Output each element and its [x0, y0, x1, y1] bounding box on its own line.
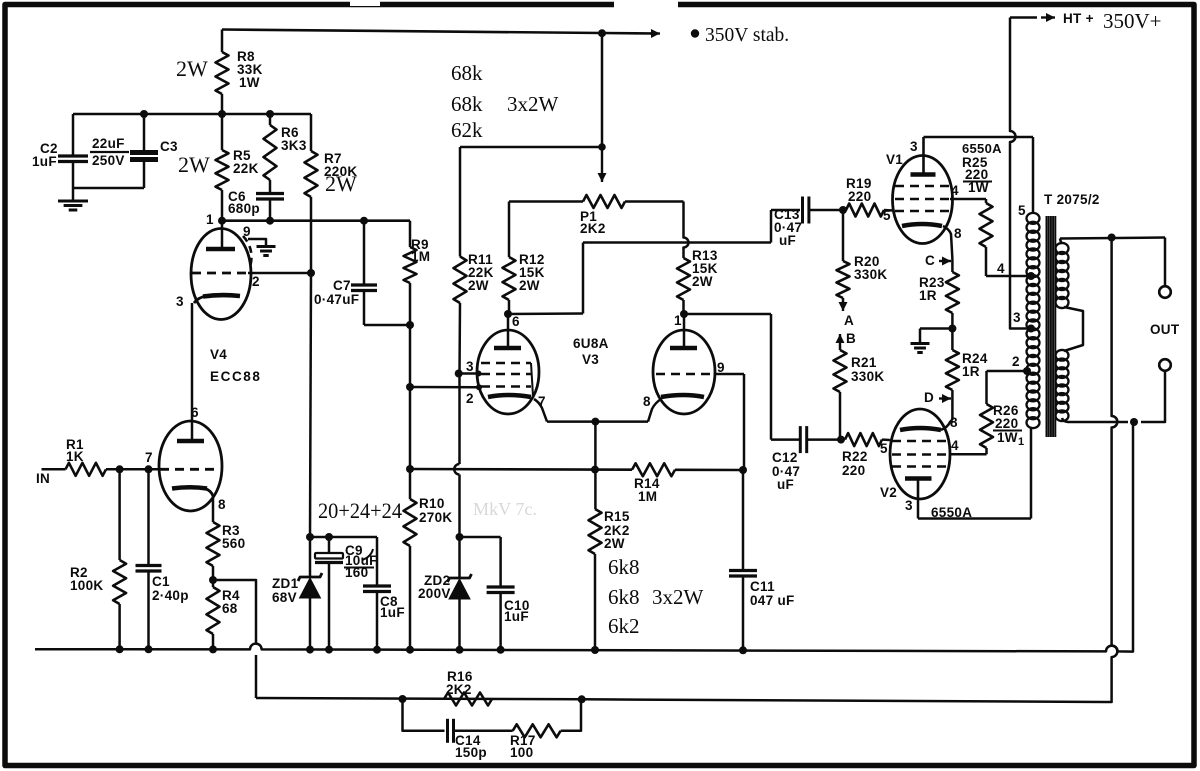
V1 pin8 lead: [943, 226, 952, 259]
svg-text:330K: 330K: [854, 267, 887, 282]
svg-text:20+24+24: 20+24+24: [318, 498, 402, 523]
node C1 top: [145, 465, 153, 473]
V4 lower cathode: [172, 487, 213, 496]
tube V2 envelope: [890, 409, 950, 499]
node C7/R9 bottom: [406, 321, 414, 329]
wire feedback vertical: [1105, 238, 1117, 703]
wire R8 bottom lead: [221, 94, 224, 114]
svg-text:200V: 200V: [418, 586, 451, 601]
wire decoupled B+ bus y114: [73, 113, 311, 116]
label R1: [66, 437, 84, 464]
capacitor C13: [803, 197, 809, 224]
svg-text:1uF: 1uF: [32, 154, 57, 169]
wire R1 to V4 pin7: [106, 468, 160, 471]
pin label 8 (V1): [954, 226, 962, 241]
svg-text:3: 3: [1013, 310, 1021, 325]
svg-text:5: 5: [883, 208, 891, 223]
wire pin3 stub: [459, 372, 479, 375]
terminal dot 350V stab: [691, 29, 699, 37]
wire pin9 to ground: [248, 239, 266, 245]
V3 pin7 lead: [534, 399, 547, 422]
wire R3 to R4: [212, 566, 215, 587]
svg-text:3x2W: 3x2W: [652, 585, 704, 609]
node R6 top: [266, 110, 274, 118]
V1 grid dashes: [895, 186, 950, 211]
svg-text:6k8: 6k8: [608, 585, 640, 609]
terminal IN lead: [42, 468, 66, 471]
svg-text:2W: 2W: [325, 171, 357, 196]
V2 cathode: [900, 428, 941, 430]
node pin2 at envelope: [476, 384, 482, 390]
svg-text:V1: V1: [886, 152, 903, 167]
wire arrow 350V stab: [650, 29, 660, 38]
resistor R4: [207, 587, 220, 649]
tap label 4: [997, 261, 1005, 276]
svg-text:2K2: 2K2: [580, 221, 606, 236]
resistor R22: [845, 433, 890, 446]
node bus C10: [497, 646, 505, 654]
annotation 68k 3x2W: [451, 92, 559, 116]
wire pin9 V3: [715, 374, 744, 470]
label R15: [604, 509, 630, 551]
svg-text:6: 6: [191, 405, 199, 420]
V3 pentode anode plate: [494, 346, 521, 351]
annotation 6k8: [608, 555, 640, 579]
svg-text:2: 2: [466, 391, 474, 406]
resistor R1: [66, 463, 107, 476]
node C7 top: [360, 217, 368, 225]
zener ZD1: [298, 537, 322, 650]
node R15 rail: [591, 466, 599, 474]
pin label 3 (V1): [910, 139, 918, 154]
transformer secondary lower: [1056, 350, 1069, 421]
label HT+: [1063, 11, 1094, 26]
svg-text:3: 3: [910, 139, 918, 154]
label 6U8A V3: [573, 336, 609, 367]
resistor R8: [216, 52, 229, 94]
label R17: [510, 733, 536, 760]
capacitor C6: [256, 194, 284, 221]
label R7: [324, 151, 357, 179]
tube V1 envelope: [893, 156, 953, 244]
node bus ZD2: [456, 646, 464, 654]
svg-text:1: 1: [206, 212, 214, 227]
svg-text:C12: C12: [772, 450, 798, 465]
label B: [846, 331, 856, 346]
wire V3 cathode drop: [594, 422, 597, 509]
svg-text:3: 3: [176, 294, 184, 309]
resistor R20: [837, 210, 850, 302]
V4 pin9 shield dashed arc: [243, 236, 251, 267]
svg-text:22K: 22K: [233, 161, 259, 176]
node V3 pin6: [504, 310, 512, 318]
label R26: [993, 403, 1024, 448]
label C7: [314, 278, 359, 307]
label IN: [36, 471, 50, 486]
svg-text:6U8A: 6U8A: [573, 336, 609, 351]
wire C7 bottom to R9: [364, 324, 410, 327]
svg-text:68V: 68V: [272, 590, 297, 605]
svg-text:6k8: 6k8: [608, 555, 640, 579]
svg-text:4: 4: [997, 261, 1005, 276]
tube V3 triode envelope: [653, 330, 715, 414]
node tap 3: [1027, 325, 1035, 333]
resistor R24: [946, 329, 959, 421]
pin label 8 (V4): [218, 497, 226, 512]
potentiometer P1: [509, 195, 684, 208]
svg-text:150p: 150p: [455, 745, 487, 760]
node bus C9: [325, 646, 333, 654]
wire fb lower branch: [403, 699, 445, 731]
svg-text:0·47uF: 0·47uF: [314, 292, 359, 307]
V4 upper grid dashed: [192, 272, 248, 275]
svg-text:330K: 330K: [851, 369, 884, 384]
V2 pin8 lead: [941, 420, 952, 430]
label R10: [419, 496, 452, 525]
pin label 2 (V4): [252, 274, 260, 289]
svg-text:9: 9: [243, 224, 251, 239]
annotation 2W (R5): [178, 152, 210, 177]
wire R25 to tap4: [986, 275, 1030, 278]
svg-text:68k: 68k: [451, 92, 483, 116]
wire lower OUT to secondary bottom: [1062, 371, 1165, 422]
capacitor C7: [351, 221, 377, 325]
tube V4 lower triode envelope: [159, 421, 222, 511]
wire R11/pin3 column: [454, 374, 459, 538]
annotation 20+24+24: [318, 498, 402, 523]
wire HT to P1 wiper: [460, 33, 602, 257]
svg-text:680p: 680p: [228, 201, 260, 216]
svg-text:9: 9: [717, 360, 725, 375]
svg-text:8: 8: [954, 226, 962, 241]
V3 suppressor tie: [531, 363, 533, 396]
svg-text:T 2075/2: T 2075/2: [1044, 192, 1100, 207]
arrow node B: [836, 334, 845, 345]
svg-text:1W: 1W: [968, 180, 989, 195]
resistor R15: [589, 509, 602, 650]
V3 pentode grid dashes: [481, 363, 531, 387]
label T 2075/2: [1044, 192, 1100, 207]
wire V4 pin2 to R7: [248, 272, 311, 275]
wire P1 right with hop: [684, 202, 689, 259]
svg-text:560: 560: [222, 536, 245, 551]
svg-text:68k: 68k: [451, 61, 483, 85]
wire cathode rail: [410, 469, 743, 470]
wire 350V stab top bus: [222, 30, 657, 34]
node junction top bus to P1 wiper: [598, 29, 606, 37]
pin label 2 (V3): [466, 391, 474, 406]
capacitor C14: [448, 719, 454, 743]
svg-text:ZD1: ZD1: [272, 576, 299, 591]
annotation 350V+: [1103, 9, 1162, 33]
pin label 6 (V4): [191, 405, 199, 420]
svg-text:62k: 62k: [451, 118, 483, 142]
annotation 2W (R8): [176, 56, 208, 81]
svg-text:R22: R22: [842, 449, 868, 464]
svg-text:250V: 250V: [92, 153, 125, 168]
node pin3: [455, 370, 463, 378]
label R8: [237, 49, 263, 90]
node ground tap: [1130, 418, 1138, 426]
svg-text:1: 1: [1018, 436, 1024, 448]
capacitor C11: [729, 470, 757, 650]
svg-text:2W: 2W: [692, 274, 713, 289]
svg-text:1uF: 1uF: [504, 609, 529, 624]
zener ZD2: [448, 537, 472, 650]
wire HT vertical: [1010, 18, 1030, 329]
svg-text:R15: R15: [604, 509, 630, 524]
svg-text:OUT: OUT: [1150, 322, 1180, 337]
pin label 6 (V3): [512, 314, 520, 329]
tube V3 pentode envelope: [477, 330, 539, 414]
svg-text:220: 220: [995, 416, 1018, 431]
V3 triode grid dashes: [656, 373, 712, 376]
V3 pentode cathode: [488, 395, 531, 397]
label R3: [222, 523, 245, 551]
annotation 62k: [451, 118, 483, 142]
svg-text:R10: R10: [419, 496, 445, 511]
wire to ground stub: [920, 329, 952, 343]
node rail R10: [406, 465, 414, 473]
ground C2: [58, 188, 88, 210]
svg-text:IN: IN: [36, 471, 50, 486]
svg-text:2W: 2W: [178, 152, 210, 177]
node R21/R22: [837, 436, 845, 444]
V2 grid dashes: [892, 441, 948, 467]
wire C2 C3 bottom: [73, 187, 144, 190]
resistor R12: [503, 202, 516, 315]
svg-text:6: 6: [512, 314, 520, 329]
label R16: [446, 669, 473, 697]
svg-text:68: 68: [222, 601, 238, 616]
svg-text:8: 8: [643, 394, 651, 409]
annotation 6k2: [608, 614, 640, 638]
svg-text:100: 100: [510, 745, 533, 760]
pin label 3 (V3): [466, 359, 474, 374]
svg-text:100K: 100K: [70, 578, 103, 593]
node C6 bottom: [266, 217, 274, 225]
svg-text:3K3: 3K3: [281, 138, 307, 153]
node pin3 at envelope: [476, 371, 482, 377]
label V1: [886, 152, 903, 167]
wire V1 anode to transformer tap5: [924, 137, 1034, 214]
resistor R14: [632, 463, 675, 476]
label OUT: [1150, 322, 1180, 337]
node ZD2 top: [456, 533, 464, 541]
node V4 pin1: [218, 217, 226, 225]
resistor R6: [264, 114, 277, 193]
wire R10 column: [409, 387, 412, 469]
capacitor C2: [58, 114, 88, 188]
svg-text:D: D: [924, 390, 934, 405]
wire V4 cathode to lower anode: [191, 303, 194, 439]
resistor R5: [216, 114, 229, 221]
svg-text:C1: C1: [152, 574, 170, 589]
svg-text:6k2: 6k2: [608, 614, 640, 638]
label R5: [233, 148, 259, 176]
label 6550A (V1): [962, 141, 1002, 156]
svg-text:HT +: HT +: [1063, 11, 1094, 26]
V4 lower grid dashed: [160, 468, 218, 471]
svg-text:1uF: 1uF: [380, 605, 405, 620]
label C9: [344, 543, 378, 580]
node bus C1: [145, 645, 153, 653]
tube V4 upper triode envelope: [191, 229, 251, 320]
pin label 3 (V4): [176, 294, 184, 309]
node feedback R3/R4: [209, 576, 217, 584]
label C14: [455, 733, 487, 760]
ground V4 pin9: [257, 247, 276, 256]
label R21: [851, 355, 884, 384]
svg-text:2W: 2W: [519, 278, 540, 293]
V4 upper cathode: [194, 295, 240, 303]
label R2: [70, 565, 103, 593]
svg-text:350V stab.: 350V stab.: [705, 25, 789, 46]
svg-text:2W: 2W: [468, 278, 489, 293]
label R6: [281, 125, 307, 153]
node R23/R24: [948, 325, 956, 333]
capacitor C1: [136, 469, 162, 649]
wire V1 pin4 to R25: [950, 198, 986, 201]
arrow node A: [839, 301, 848, 311]
node tap 4: [1027, 272, 1035, 280]
transformer secondary upper: [1056, 239, 1069, 309]
svg-text:1W: 1W: [997, 430, 1018, 445]
annotation 68k: [451, 61, 483, 85]
label R4: [222, 588, 240, 616]
resistor R17: [513, 724, 561, 737]
wire R26 to tap2: [987, 370, 1027, 373]
pin label 5 (V1): [883, 208, 891, 223]
label R19: [846, 176, 872, 204]
resistor R26: [980, 371, 993, 454]
tap label 5: [1018, 203, 1026, 218]
wire pin6 to C13: [508, 210, 800, 314]
node bus R4: [209, 645, 217, 653]
label R20: [854, 254, 887, 282]
node pin2/R7: [307, 269, 315, 277]
node R11 feed junction: [598, 143, 606, 151]
node bus R10: [406, 646, 414, 654]
svg-text:3: 3: [905, 498, 913, 513]
wire R7 grid bias drop: [310, 273, 311, 537]
svg-text:3x2W: 3x2W: [507, 92, 559, 116]
label R11: [468, 252, 494, 293]
svg-text:C: C: [925, 253, 935, 268]
svg-text:160: 160: [345, 565, 368, 580]
svg-text:1R: 1R: [919, 288, 937, 303]
tap label 3: [1013, 310, 1021, 325]
svg-text:220: 220: [848, 189, 871, 204]
label R9: [411, 237, 430, 264]
wire C12 to R22: [807, 438, 841, 441]
label C13: [774, 207, 802, 248]
wire main ground bus: [35, 422, 1133, 652]
svg-text:1M: 1M: [411, 249, 430, 264]
svg-text:C11: C11: [750, 579, 775, 594]
node V3 cathodes: [591, 418, 599, 426]
svg-text:V2: V2: [880, 485, 897, 500]
resistor R11: [454, 257, 467, 374]
resistor R21: [834, 345, 847, 440]
pin label 3 (V2): [905, 498, 913, 513]
wire ZD2 to C10: [460, 536, 501, 539]
wiper arrow into P1: [598, 146, 607, 182]
svg-text:V3: V3: [582, 352, 599, 367]
capacitor C3 electrolytic: [130, 114, 158, 188]
wire pin1 to C12: [684, 314, 799, 440]
pin label 5 (V2): [880, 441, 888, 456]
wire R8 top lead: [221, 30, 224, 53]
resistor R7: [305, 114, 318, 273]
svg-text:B: B: [846, 331, 856, 346]
label R25: [962, 155, 992, 195]
svg-text:2K2: 2K2: [446, 682, 472, 697]
wire to upper OUT: [1164, 238, 1167, 287]
svg-text:2W: 2W: [176, 56, 208, 81]
wire R17 up to fb line: [561, 699, 581, 731]
resistor R25: [980, 199, 993, 276]
svg-text:5: 5: [880, 441, 888, 456]
svg-text:2: 2: [1012, 354, 1020, 369]
node bus C11: [739, 646, 747, 654]
pin label 8 (V2): [950, 415, 958, 430]
svg-text:1: 1: [674, 313, 682, 328]
svg-text:4: 4: [951, 183, 959, 198]
annotation 6k8 3x2W: [608, 585, 704, 609]
label C2: [32, 141, 58, 169]
node feedback takeoff: [1108, 234, 1116, 242]
label R22: [842, 449, 868, 478]
pin label 1 (V3): [674, 313, 682, 328]
node bus R15: [591, 646, 599, 654]
wire V1 cathode drop: [951, 259, 954, 272]
wire feedback line: [256, 698, 1105, 702]
svg-text:uF: uF: [777, 477, 794, 492]
label R14: [634, 476, 660, 504]
wire C13 to R19 node: [809, 209, 843, 212]
secondary series link: [1064, 307, 1083, 351]
svg-text:3: 3: [466, 359, 474, 374]
pin label 4 (V2): [951, 438, 959, 453]
svg-text:1K: 1K: [66, 449, 84, 464]
label ZD1: [272, 576, 299, 605]
label C11: [750, 579, 795, 608]
label P1: [580, 209, 606, 236]
svg-text:270K: 270K: [419, 510, 452, 525]
V4 lower anode plate: [177, 439, 204, 441]
V1 cathode: [902, 224, 942, 226]
svg-text:MkV 7c.: MkV 7c.: [473, 499, 537, 519]
transformer primary winding: [1027, 213, 1040, 428]
tap label 2: [1012, 354, 1020, 369]
label C3 value 22uF 250V: [90, 136, 178, 168]
wire V2 anode to transformer: [918, 427, 1031, 519]
V1 anode plate: [911, 137, 936, 175]
svg-text:350V+: 350V+: [1103, 9, 1162, 33]
resistor R9: [404, 221, 417, 387]
V4 pin1 anode lead: [221, 221, 224, 247]
svg-text:1W: 1W: [239, 75, 260, 90]
svg-text:C3: C3: [160, 139, 178, 154]
resistor R16: [444, 693, 492, 706]
svg-text:220: 220: [842, 463, 865, 478]
pin label 1 (V4): [206, 212, 214, 227]
svg-text:2·40p: 2·40p: [152, 588, 189, 603]
transformer core: [1047, 216, 1056, 437]
V3 triode cathode: [661, 395, 704, 397]
node R19/R20: [839, 206, 847, 214]
